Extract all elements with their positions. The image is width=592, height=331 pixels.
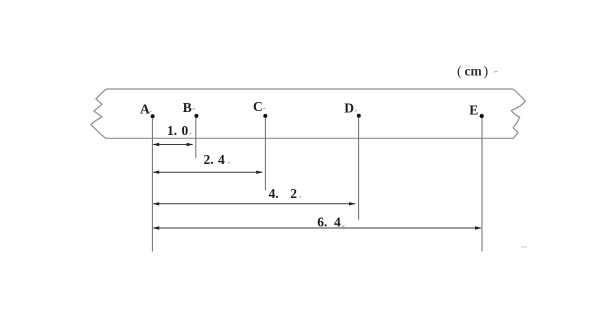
dimension line A-D (4.2) [152, 202, 355, 205]
paper tape outline with torn zigzag ends [91, 89, 526, 138]
svg-text:D: D [344, 101, 354, 116]
tick after B [193, 108, 195, 109]
dimension line A-E (6.4) [152, 226, 481, 229]
svg-text:A: A [140, 101, 150, 116]
svg-text:2: 2 [290, 186, 297, 201]
faint smudge bottom right [521, 246, 527, 249]
tick after 1.0 [189, 133, 192, 134]
drop line from C [264, 118, 266, 190]
svg-text:2.: 2. [204, 152, 214, 167]
dot C [263, 114, 267, 118]
dimension line A-B (1.0) [152, 143, 193, 146]
svg-text:(: ( [457, 65, 462, 80]
svg-text:0: 0 [182, 123, 189, 138]
svg-text:4.: 4. [269, 186, 279, 201]
svg-text:6.: 6. [317, 215, 327, 230]
stray mark after (cm) [494, 71, 498, 72]
drop line from A [151, 118, 153, 252]
svg-text:1.: 1. [167, 123, 177, 138]
drop line from D [358, 118, 360, 220]
dot E [480, 114, 484, 118]
svg-text:4: 4 [218, 152, 225, 167]
tick after A [150, 111, 152, 113]
dot B [194, 114, 198, 118]
drop line from E [481, 118, 483, 252]
svg-text:cm: cm [465, 64, 483, 79]
tick after D [355, 110, 357, 111]
drop line from B [195, 118, 197, 158]
svg-text:C: C [253, 99, 263, 114]
svg-text:): ) [484, 65, 489, 80]
svg-text:E: E [469, 103, 478, 118]
tick after 2.4 [228, 162, 231, 163]
dot A [151, 114, 155, 118]
tick after 4.2 [299, 196, 302, 197]
dot D [357, 114, 361, 118]
svg-text:4: 4 [334, 215, 341, 230]
dimension line A-C (2.4) [152, 171, 263, 174]
tick after C [263, 108, 265, 109]
tick after 6.4 [342, 226, 345, 227]
svg-text:B: B [183, 100, 192, 115]
